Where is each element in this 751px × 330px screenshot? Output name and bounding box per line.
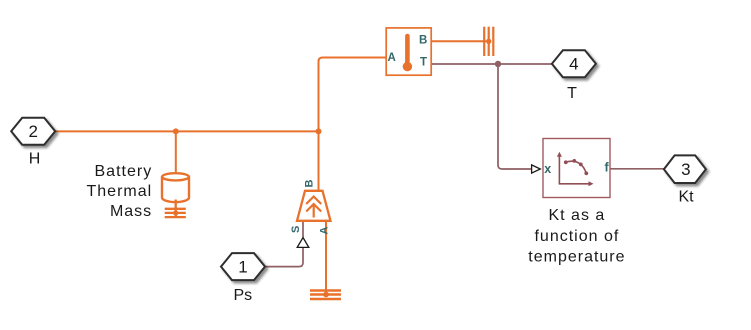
svg-text:2: 2 — [28, 122, 37, 141]
svg-text:A: A — [388, 52, 396, 64]
svg-text:T: T — [420, 56, 427, 68]
svg-text:Battery: Battery — [95, 163, 153, 180]
svg-text:1: 1 — [238, 258, 247, 277]
svg-text:Kt as a: Kt as a — [548, 207, 605, 224]
svg-text:x: x — [544, 162, 551, 176]
svg-text:A: A — [319, 227, 331, 235]
svg-text:function of: function of — [534, 228, 619, 245]
svg-text:Mass: Mass — [110, 203, 152, 220]
svg-text:Thermal: Thermal — [87, 183, 153, 200]
svg-text:S: S — [290, 226, 302, 233]
svg-text:3: 3 — [681, 160, 690, 179]
svg-text:Ps: Ps — [233, 287, 252, 304]
svg-text:temperature: temperature — [528, 249, 625, 266]
svg-text:T: T — [567, 85, 577, 102]
svg-text:H: H — [29, 150, 41, 167]
svg-text:B: B — [419, 35, 427, 47]
svg-text:B: B — [304, 180, 316, 188]
svg-text:4: 4 — [569, 55, 578, 74]
svg-text:Kt: Kt — [678, 189, 694, 206]
